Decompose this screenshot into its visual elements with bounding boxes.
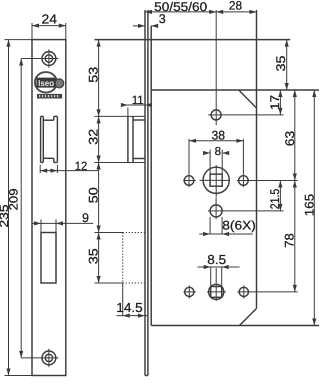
svg-text:8(6X): 8(6X)	[222, 218, 256, 232]
vertical center line through follower	[215, 165, 217, 197]
left dim column arrows	[97, 40, 101, 47]
dim 235 line	[8, 40, 10, 376]
bottom follower circle	[209, 284, 224, 299]
vertical center line upper	[215, 10, 217, 125]
dim 28 line	[216, 11, 256, 13]
svg-text:24: 24	[42, 11, 58, 26]
case internal top line	[151, 89, 319, 91]
latch bottom edge and extension	[94, 162, 145, 164]
dim 50/55/60 line	[145, 11, 216, 13]
faceplate side view	[144, 10, 146, 376]
dim 11 extension lines	[127, 108, 129, 117]
case back edge	[256, 10, 258, 309]
svg-text:209: 209	[6, 188, 20, 210]
right mount hole ticks	[237, 180, 298, 182]
dim 12 extension lines	[39, 165, 41, 173]
dim 8 extension lines	[209, 150, 211, 175]
faceplate front view outline	[32, 40, 66, 376]
svg-text:35: 35	[87, 248, 101, 264]
deadbolt top extension line	[95, 232, 123, 234]
dim 8.5 extension lines	[210, 267, 212, 287]
dim 21.5 line	[279, 181, 281, 211]
svg-text:8.5: 8.5	[207, 252, 226, 267]
svg-text:38: 38	[212, 128, 226, 142]
latch top edge and extension	[94, 115, 145, 117]
latch bolt front view	[40, 116, 42, 162]
cylinder hole center lines	[208, 210, 284, 212]
svg-text:28: 28	[229, 0, 243, 13]
deadbolt side view hidden outline	[122, 233, 124, 284]
bottom right mount hole	[239, 287, 248, 296]
case top chamfer	[239, 90, 257, 108]
svg-text:53: 53	[87, 67, 101, 83]
dim 165 line	[313, 90, 315, 326]
svg-text:78: 78	[282, 233, 296, 248]
latch lip lines	[133, 119, 145, 121]
svg-text:63: 63	[283, 131, 297, 146]
cylinder hole	[210, 205, 222, 217]
svg-text:50: 50	[87, 187, 101, 203]
svg-text:Iseo: Iseo	[38, 78, 54, 88]
svg-text:165: 165	[303, 194, 317, 216]
bottom screw hole center lines	[21, 357, 58, 359]
case bottom chamfer	[240, 309, 257, 326]
svg-text:35: 35	[274, 55, 288, 71]
dim 14.5 line	[116, 315, 147, 317]
left mount hole	[184, 176, 194, 186]
svg-text:50/55/60: 50/55/60	[154, 0, 207, 14]
bottom screw hole inner circle	[45, 354, 52, 361]
bottom right mount hole ticks	[237, 291, 297, 293]
latch head side view	[127, 116, 129, 162]
manufacturer logo oval	[35, 72, 57, 92]
dim 8.5 line	[198, 266, 240, 268]
logo caption bar	[37, 94, 62, 99]
top screw hole inner circle	[45, 55, 52, 62]
dim 24 extension lines	[31, 23, 33, 40]
dim 14.5 extension line	[122, 283, 124, 316]
dim 8(6X) extension lines	[209, 217, 211, 234]
svg-text:12: 12	[75, 159, 88, 173]
dim 8 line	[203, 152, 210, 154]
deadbolt front view cutout	[41, 233, 56, 284]
top screw hole outer circle	[42, 52, 56, 66]
left mount hole ticks	[183, 180, 196, 182]
bottom screw hole outer circle	[42, 351, 56, 365]
svg-text:3: 3	[159, 12, 166, 26]
left dim column line	[98, 40, 100, 283]
svg-text:11: 11	[132, 93, 144, 107]
follower circle	[203, 167, 229, 193]
svg-text:21.5: 21.5	[268, 189, 282, 210]
dim 8(6X) line	[199, 233, 253, 235]
dim 35 right line	[286, 40, 288, 90]
logo wordmark block	[36, 78, 55, 88]
dim 235 extension lines	[5, 39, 33, 41]
follower square	[210, 174, 222, 186]
top center hole center line	[208, 114, 283, 116]
dim 9 extension lines	[40, 219, 42, 232]
logo right medallion	[55, 79, 64, 88]
case bottom edge	[151, 325, 319, 327]
svg-text:32: 32	[87, 129, 101, 145]
dim 78 line	[294, 181, 296, 292]
case front edge	[150, 26, 152, 326]
bottom left mount hole	[185, 287, 194, 296]
dim 3 line	[133, 25, 145, 27]
svg-text:8: 8	[215, 146, 221, 158]
dim 63 line	[294, 90, 296, 181]
dim 38 line	[189, 140, 243, 142]
deadbolt bottom extension line	[95, 282, 123, 284]
follower horizontal center line	[200, 179, 230, 181]
svg-text:9: 9	[82, 211, 89, 225]
dim 12 line	[40, 170, 98, 172]
dim 209 line	[20, 59, 22, 358]
case top edge	[95, 39, 291, 41]
dim 24 line	[32, 25, 66, 27]
dim 9 line	[32, 222, 93, 224]
top screw hole center lines	[21, 58, 58, 60]
svg-text:17: 17	[268, 95, 282, 110]
svg-text:14.5: 14.5	[116, 300, 143, 315]
bottom left mount hole ticks	[183, 291, 195, 293]
right mount hole	[239, 176, 249, 186]
bottom follower square	[211, 287, 222, 298]
dim 11 line	[122, 104, 152, 106]
top center hole	[211, 110, 221, 120]
dim 17 line	[279, 90, 281, 115]
bottom follower center line	[215, 268, 217, 301]
